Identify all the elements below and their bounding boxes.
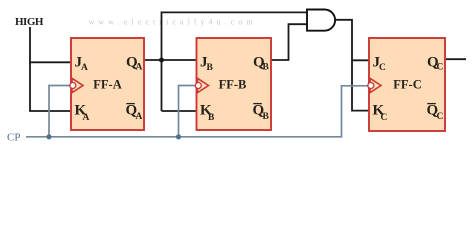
svg-text:B: B: [208, 113, 215, 123]
svg-text:A: A: [81, 63, 88, 73]
flip-flop FF-B: [197, 38, 272, 130]
pin label Q_A: [126, 55, 143, 73]
svg-text:FF-B: FF-B: [219, 78, 247, 92]
pin label J_C: [373, 55, 387, 74]
svg-text:C: C: [381, 113, 388, 123]
pin label K_B: [200, 103, 215, 124]
svg-text:A: A: [83, 113, 90, 123]
flip-flop FF-A: [71, 38, 144, 130]
wire Q_C output stub: [446, 58, 467, 60]
wire Q_B to AND input: [271, 24, 307, 60]
svg-text:FF-A: FF-A: [93, 78, 121, 92]
pin label Q̄_B: [253, 103, 270, 123]
wire HIGH to J_A: [29, 61, 72, 63]
svg-text:B: B: [263, 112, 270, 122]
pin label J_A: [75, 55, 89, 74]
node CP junction B: [176, 134, 181, 139]
clock input FF-B: [195, 78, 208, 92]
svg-text:www.electrically4u.com: www.electrically4u.com: [89, 18, 257, 27]
svg-text:C: C: [379, 63, 386, 73]
svg-text:B: B: [263, 63, 270, 73]
wire to J_C: [352, 59, 369, 61]
wire Q_A to J_B: [144, 59, 197, 61]
wire HIGH to K_A: [29, 110, 72, 112]
pin label Q_C: [427, 55, 444, 73]
wire HIGH vertical: [29, 27, 31, 112]
svg-text:C: C: [437, 112, 444, 122]
pin label Q_B: [253, 55, 270, 73]
pin label Q̄_A: [126, 103, 143, 123]
svg-text:FF-C: FF-C: [393, 78, 421, 92]
wire CP riser to FF-A clock: [49, 86, 71, 137]
svg-text:CP: CP: [7, 132, 20, 144]
clock input FF-A: [70, 78, 83, 92]
flip-flop FF-C: [369, 38, 445, 131]
node Q_A junction: [159, 58, 164, 63]
svg-text:A: A: [136, 63, 143, 73]
wire AND output to FF-C: [336, 20, 370, 111]
pin label K_C: [373, 103, 388, 124]
wire CP bus: [26, 86, 369, 137]
wire CP riser to FF-B clock: [179, 86, 197, 137]
node CP junction A: [46, 134, 51, 139]
pin label Q̄_C: [427, 103, 444, 123]
wire to K_B: [162, 110, 197, 112]
svg-text:C: C: [437, 63, 444, 73]
svg-text:A: A: [136, 112, 143, 122]
clock input FF-C: [368, 78, 381, 92]
svg-text:HIGH: HIGH: [15, 16, 44, 28]
pin label K_A: [75, 103, 90, 124]
pin label J_B: [200, 55, 214, 74]
wire Q_A riser to AND input: [162, 12, 308, 111]
svg-text:B: B: [207, 63, 214, 73]
AND gate U1: [307, 10, 335, 31]
